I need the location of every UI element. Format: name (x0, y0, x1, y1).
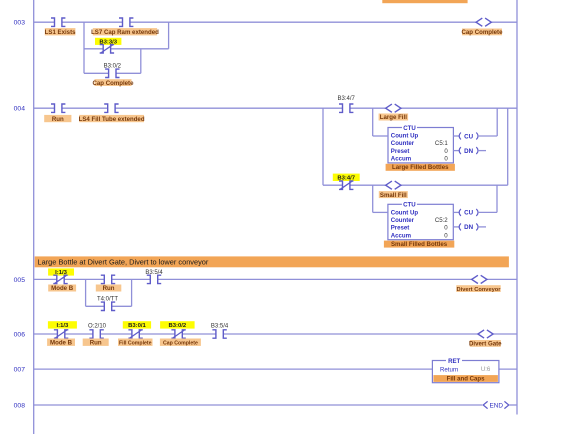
svg-text:B3:5/4: B3:5/4 (211, 323, 229, 329)
svg-text:003: 003 (14, 20, 26, 27)
contact LS4 Fill Tube extended (XIC) (104, 104, 118, 112)
vertical closing Small Fill branch (507, 108, 509, 185)
rung 004 wire segment d (350, 107, 386, 109)
rung 004 wire segment e (401, 107, 517, 109)
rung 005 wire segment c (112, 278, 151, 280)
branch level3 wire a (84, 72, 109, 74)
small fill branch wire a (323, 184, 343, 186)
svg-text:C5:2: C5:2 (435, 217, 448, 224)
contact O:2/10 (XIC) (89, 330, 103, 338)
svg-text:U:6: U:6 (481, 366, 491, 373)
svg-text:LS4 Fill Tube extended: LS4 Fill Tube extended (79, 116, 145, 123)
label Mode B (rung 005) (48, 285, 76, 293)
contact B3:5/4 (XIC, rung 005) (147, 275, 161, 283)
svg-text:Count Up: Count Up (391, 133, 419, 140)
svg-text:Fill Complete: Fill Complete (119, 340, 152, 346)
svg-text:Preset: Preset (391, 148, 410, 155)
contact Run (XIC, rung 005) (101, 275, 115, 283)
contact B3:0/2 (XIC) (105, 69, 119, 77)
label Fill and Caps (RET band) (433, 375, 498, 383)
rung comment banner (35, 256, 509, 267)
svg-text:Cap Complete: Cap Complete (93, 80, 135, 87)
svg-text:Run: Run (90, 339, 102, 346)
rung 005 wire segment a (34, 278, 57, 280)
contact LS1 Exists (XIC) (51, 18, 65, 26)
svg-text:RET: RET (448, 358, 460, 365)
highlighted address B3:3/3 (95, 38, 121, 46)
svg-text:Large Filled Bottles: Large Filled Bottles (392, 164, 449, 171)
highlighted address B3:0/2 (160, 321, 195, 329)
svg-text:CTU: CTU (403, 125, 416, 132)
rung 006 wire segment d (139, 333, 175, 335)
vertical closing CTU C5:1 branch (496, 108, 498, 136)
rung 004 wire segment b (62, 107, 108, 109)
label Run (rung 006) (83, 339, 109, 347)
CTU C5:1 counter block box (388, 124, 453, 163)
contact LS7 Cap Ram extended (XIC) (119, 18, 133, 26)
branch inner vertical rung 003 (140, 49, 142, 74)
svg-text:CU: CU (464, 210, 473, 217)
rung 003 wire segment d (491, 21, 517, 23)
svg-text:005: 005 (14, 277, 26, 284)
label Fill Complete (118, 339, 153, 347)
CTU C5:2 input wire (373, 211, 388, 213)
svg-text:LS1 Exists: LS1 Exists (45, 29, 76, 36)
svg-text:B3:0/2: B3:0/2 (169, 323, 187, 329)
rung 005 wire segment e (487, 278, 517, 280)
branch level2 wire a (84, 48, 103, 50)
vertical to CTU C5:2 input (372, 185, 374, 212)
address B3:0/2 (104, 64, 122, 70)
output coil Divert Gate (OTE) (478, 330, 493, 338)
label LS7 Cap Ram extended (91, 28, 159, 36)
address B3:5/4 (rung 005) (145, 270, 163, 276)
rung number 003 (14, 20, 26, 27)
timer branch wire a (86, 305, 105, 307)
rung 006 wire segment e (182, 333, 216, 335)
contact T4:0/TT (XIC) (101, 302, 115, 310)
CTU C5:2 counter label band (384, 241, 454, 248)
svg-text:LS7 Cap Ram extended: LS7 Cap Ram extended (91, 29, 159, 36)
svg-text:Divert Conveyor: Divert Conveyor (457, 287, 502, 293)
label Cap Complete (coil) (462, 29, 504, 37)
highlighted address I:1/3 (rung 005) (48, 268, 74, 276)
CTU C5:1 counter label band (386, 164, 455, 171)
svg-text:Count Up: Count Up (391, 209, 419, 216)
rung 004 wire segment a (34, 107, 55, 109)
svg-text:END: END (490, 402, 504, 409)
label Mode B (rung 006) (47, 339, 75, 347)
svg-text:Accum: Accum (391, 156, 412, 163)
address O:2/10 (88, 323, 107, 329)
contact B3:4/7 (XIO) (339, 181, 353, 189)
rung number 007 (14, 367, 26, 374)
address B3:5/4 (rung 006) (211, 323, 229, 329)
rung 007 wire left (34, 368, 433, 370)
label Divert Gate (469, 340, 502, 348)
CTU C5:1 input wire (373, 135, 388, 137)
rung 003 wire segment b (62, 21, 123, 23)
address B3:4/7 (rung 004 top) (338, 96, 356, 102)
svg-text:DN: DN (464, 224, 473, 231)
rung 006 wire segment g (493, 333, 517, 335)
svg-text:007: 007 (14, 367, 26, 374)
branch level3 wire b (116, 72, 141, 74)
highlighted address B3:4/7 (333, 174, 360, 182)
svg-text:CU: CU (464, 133, 473, 140)
svg-text:Cap Complete: Cap Complete (163, 340, 198, 346)
rung 008 wire stub to rail (510, 404, 518, 406)
svg-text:0: 0 (444, 156, 448, 163)
svg-text:Large Fill: Large Fill (380, 114, 407, 121)
rung 003 wire segment a (34, 21, 55, 23)
svg-text:Small Filled Bottles: Small Filled Bottles (391, 241, 448, 248)
svg-text:Small Fill: Small Fill (380, 192, 407, 199)
branch vertical to Small Fill level (322, 108, 324, 185)
label LS4 Fill Tube extended (79, 115, 145, 123)
rung 008 wire (34, 404, 483, 406)
svg-text:008: 008 (14, 403, 26, 410)
left power rail (33, 0, 35, 434)
svg-text:004: 004 (14, 106, 26, 113)
branch level2 wire b (111, 48, 169, 50)
svg-text:B3:4/7: B3:4/7 (338, 96, 356, 102)
contact Run (XIC) (51, 104, 65, 112)
CU output of C5:1 (453, 133, 497, 141)
rung 006 wire segment f (223, 333, 478, 335)
CTU C5:2 counter block box (388, 201, 453, 240)
CTU C5:1 counter block text rows (391, 133, 449, 163)
CTU C5:2 counter block text rows (391, 209, 449, 239)
highlighted address B3:0/1 (123, 321, 151, 329)
svg-text:Run: Run (52, 116, 64, 123)
rung number 008 (14, 403, 26, 410)
rung 005 wire segment b (64, 278, 104, 280)
rung 006 wire segment c (100, 333, 132, 335)
svg-text:Accum: Accum (391, 232, 412, 239)
RET return block (432, 357, 499, 382)
rung number 005 (14, 277, 26, 284)
svg-text:CTU: CTU (403, 202, 416, 209)
timer branch wire b (112, 305, 132, 307)
svg-text:Run: Run (103, 285, 115, 292)
svg-text:0: 0 (444, 148, 448, 155)
rung 003 wire segment c (130, 21, 476, 23)
output coil Cap Complete (OTE) (476, 18, 491, 26)
label Divert Conveyor (456, 285, 501, 293)
svg-text:Cap Complete: Cap Complete (462, 29, 504, 36)
svg-text:Large Bottle at Divert Gate, D: Large Bottle at Divert Gate, Divert to l… (38, 257, 209, 266)
label Run (44, 115, 71, 123)
contact I:1/3 (XIO, rung 005) (53, 275, 67, 283)
CU output of C5:2 (453, 209, 497, 217)
output coil Large Fill (OTE) (386, 104, 401, 112)
branch right vertical rung 003 (168, 22, 170, 49)
address T4:0/TT (97, 297, 118, 303)
DN output of C5:2 (453, 223, 486, 231)
output coil Small Fill (OTE) (386, 181, 401, 189)
rung 006 wire segment b (65, 333, 93, 335)
svg-text:Mode B: Mode B (50, 339, 73, 346)
svg-text:Mode B: Mode B (51, 285, 74, 292)
contact B3:0/2 (XIO) (171, 330, 185, 338)
svg-text:DN: DN (464, 148, 473, 155)
svg-text:Counter: Counter (391, 140, 415, 147)
vertical to CTU C5:1 input (372, 108, 374, 136)
svg-text:I:1/3: I:1/3 (57, 323, 70, 329)
label LS1 Exists (45, 28, 76, 36)
contact B3:5/4 (XIC, rung 006) (212, 330, 226, 338)
rung number 004 (14, 106, 26, 113)
highlighted address I:1/3 (rung 006) (48, 321, 77, 329)
DN output of C5:1 (453, 147, 486, 155)
svg-text:B3:0/1: B3:0/1 (128, 323, 146, 329)
svg-text:Divert Gate: Divert Gate (469, 341, 502, 348)
contact I:1/3 (XIO, rung 006) (54, 330, 68, 338)
svg-text:Return: Return (440, 366, 458, 373)
svg-text:Preset: Preset (391, 225, 410, 232)
contact B3:0/1 (XIO) (128, 330, 142, 338)
branch left vertical rung 003 (83, 22, 85, 73)
rung 006 wire segment a (34, 333, 58, 335)
svg-text:C5:1: C5:1 (435, 140, 448, 147)
svg-text:Fill and Caps: Fill and Caps (447, 376, 486, 383)
right power rail (516, 0, 518, 415)
svg-text:O:2/10: O:2/10 (88, 323, 107, 329)
run/timer branch left vertical (85, 279, 87, 306)
rung 007 wire right (499, 368, 517, 370)
vertical closing CTU C5:2 branch (496, 185, 498, 212)
cut-off orange label at top (partial, from rung above) (382, 0, 467, 3)
label Cap Complete (branch) (93, 79, 135, 87)
rung 005 wire segment d (158, 278, 472, 280)
label Run (rung 005) (96, 285, 122, 293)
contact B3:4/7 (XIC) (339, 104, 353, 112)
END marker (483, 401, 509, 409)
contact B3:3/3 (XIO) (100, 45, 114, 53)
label Small Fill (379, 191, 408, 199)
svg-text:Counter: Counter (391, 217, 415, 224)
label Large Fill (379, 114, 409, 122)
rung 004 wire segment c (115, 107, 342, 109)
rung number 006 (14, 332, 26, 339)
svg-text:006: 006 (14, 332, 26, 339)
small fill branch wire c (401, 184, 508, 186)
label Cap Complete (rung 006) (160, 339, 201, 347)
run/timer branch right vertical (131, 279, 133, 306)
output coil Divert Conveyor (OTE) (472, 275, 487, 283)
small fill branch wire b (350, 184, 386, 186)
